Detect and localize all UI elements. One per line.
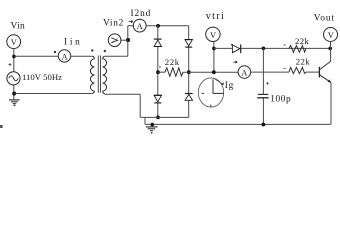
plus marker cap <box>266 82 268 84</box>
capacitor stem top <box>262 48 264 94</box>
ground center <box>146 125 158 133</box>
resistor 22k upper <box>289 46 306 53</box>
node cap ground <box>262 123 266 127</box>
scan speck <box>0 125 3 128</box>
tick marker r1 <box>284 44 286 46</box>
ground left <box>9 100 20 106</box>
node rail1 cap tap <box>262 47 266 51</box>
wire secondary riser <box>127 26 129 57</box>
svg-text:Ig: Ig <box>225 81 234 91</box>
arrow Ig <box>214 79 223 85</box>
svg-text:22k: 22k <box>165 57 180 67</box>
svg-text:Vout: Vout <box>314 14 335 24</box>
diode D3 bottom-left cathode down <box>154 95 162 103</box>
wire emitter <box>330 82 332 124</box>
plus marker source <box>9 63 12 66</box>
node source bottom junction <box>12 92 16 96</box>
svg-text:I2nd: I2nd <box>131 9 151 19</box>
svg-text:22k: 22k <box>296 56 310 66</box>
node source top junction <box>12 55 16 59</box>
wire bridge right branch <box>188 26 190 118</box>
svg-text:Iin: Iin <box>64 38 80 48</box>
node ground tap <box>151 123 155 127</box>
tick marker <box>159 66 161 68</box>
wire bridge bottom rail <box>140 116 189 118</box>
wire secondary bottom <box>105 93 140 95</box>
diode D1 top-left cathode up <box>154 39 162 46</box>
ammeter Iin <box>58 50 70 62</box>
voltmeter vtri <box>206 27 220 41</box>
wire ground jog <box>144 117 146 124</box>
arrow I2nd <box>129 21 133 23</box>
transformer core <box>97 56 99 93</box>
voltmeter Vin2 <box>108 34 121 47</box>
svg-text:A: A <box>62 51 69 61</box>
wire Vin stem <box>13 49 15 72</box>
svg-text:V: V <box>11 37 18 47</box>
resistor 22k bridge <box>165 68 183 77</box>
ammeter A2 <box>238 66 251 79</box>
ammeter I2nd <box>133 19 146 32</box>
wire bridge left branch <box>157 26 159 118</box>
svg-text:100p: 100p <box>270 95 291 105</box>
wire mid rail to right <box>183 71 238 73</box>
node vtri rail1 <box>212 47 216 51</box>
voltmeter Vin <box>7 35 21 49</box>
tick marker r2 <box>284 67 286 69</box>
arrow A2 <box>233 61 237 63</box>
node Vin2 tap <box>126 38 130 42</box>
node bridge mid left <box>156 70 160 74</box>
svg-text:A: A <box>241 68 248 78</box>
wire rail2 right of meter <box>251 71 289 73</box>
wire base lead <box>306 71 319 73</box>
svg-text:110V 50Hz: 110V 50Hz <box>22 72 62 82</box>
wire top rail to bridge <box>146 25 189 27</box>
wire riser to I2nd <box>128 25 134 27</box>
node bridge bottom left <box>156 116 160 120</box>
node vtri rail2 <box>212 70 216 74</box>
wire primary bottom <box>14 93 91 95</box>
wire primary top left <box>14 55 58 57</box>
wire secondary top <box>105 55 128 57</box>
wire mid rail left <box>158 71 165 73</box>
svg-text:V: V <box>210 30 217 40</box>
transformer T1 secondary winding <box>103 56 107 94</box>
capacitor stem bottom <box>262 98 264 124</box>
svg-text:22k: 22k <box>295 36 309 46</box>
wire ammeter to transformer <box>71 55 93 57</box>
transistor Q1 <box>319 61 331 82</box>
diode D4 bottom-right cathode up <box>185 94 193 101</box>
diode D2 top-right cathode down <box>185 40 193 48</box>
wire collector <box>330 48 332 61</box>
wire Vout stem <box>330 42 332 49</box>
wire top rail right side <box>214 47 331 49</box>
voltmeter Vout <box>324 28 338 42</box>
node bridge top left <box>156 24 160 28</box>
transformer T1 primary winding <box>90 56 94 93</box>
transformer phase dot secondary <box>104 50 106 52</box>
wire secondary drop <box>139 94 141 117</box>
svg-text:A: A <box>137 21 144 31</box>
resistor 22k lower <box>289 67 306 73</box>
svg-text:Vin2: Vin2 <box>103 19 124 29</box>
node bridge mid right <box>187 70 191 74</box>
transformer phase dot primary <box>91 49 93 51</box>
capacitor C1 <box>257 94 268 97</box>
svg-text:V: V <box>328 30 335 40</box>
diode D5 series <box>232 44 240 53</box>
wire Vin2 stub <box>121 39 128 41</box>
marker diode dot <box>231 44 233 46</box>
ammeter arrow dot <box>54 51 56 53</box>
node collector top <box>328 47 332 51</box>
AC source V1 110V 50Hz <box>7 72 20 85</box>
scope clock XSC <box>198 78 224 107</box>
wire ground rail <box>145 123 331 125</box>
svg-text:vtri: vtri <box>206 11 224 22</box>
wire vtri stem <box>213 42 215 73</box>
svg-text:Vin: Vin <box>11 22 26 32</box>
wire source bottom stem <box>13 85 15 100</box>
